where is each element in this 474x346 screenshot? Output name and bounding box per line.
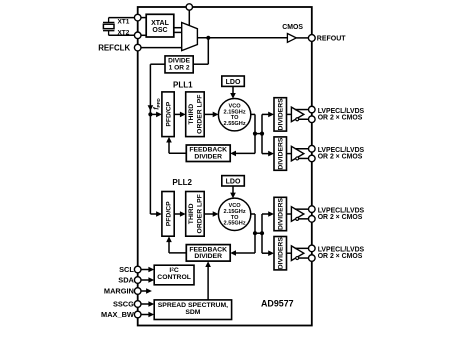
wire XTAL OSC out b bbox=[174, 31, 182, 33]
svg-text:AD9577: AD9577 bbox=[261, 299, 294, 309]
wire LDO to VCO PLL2 bbox=[230, 186, 236, 198]
mux M1 bbox=[182, 23, 198, 51]
pin REFCLK bbox=[134, 44, 141, 51]
svg-text:OSC: OSC bbox=[152, 27, 167, 34]
DIVIDERS box 1 bbox=[274, 98, 287, 131]
SPREAD SPECTRUM SDM box bbox=[154, 300, 231, 320]
svg-text:1 OR 2: 1 OR 2 bbox=[169, 65, 190, 72]
svg-text:PLL1: PLL1 bbox=[173, 80, 193, 89]
svg-text:SPREAD SPECTRUM,: SPREAD SPECTRUM, bbox=[158, 302, 228, 309]
wire XT1 to crystal bbox=[109, 17, 138, 19]
wire mux select from top pin bbox=[188, 7, 190, 26]
wire dividers rail PLL1 bbox=[261, 114, 263, 153]
node rail bridge left PLL1 bbox=[253, 132, 257, 136]
label XT2 bbox=[117, 30, 129, 37]
svg-text:DIVIDERS: DIVIDERS bbox=[278, 237, 285, 270]
wire XTAL OSC out a bbox=[174, 27, 182, 29]
node A junction to PLL1 bbox=[148, 112, 152, 116]
label AD9577 bbox=[261, 299, 294, 309]
CMOS buffer U2 bbox=[287, 34, 296, 43]
svg-text:DIVIDERS: DIVIDERS bbox=[278, 197, 285, 230]
label PLL1 bbox=[173, 80, 193, 89]
wire into DIVIDERS1 bbox=[262, 112, 274, 118]
wire SSCG bbox=[138, 303, 149, 305]
wire XT2 to crystal bbox=[109, 34, 138, 36]
svg-text:ORDER LPF: ORDER LPF bbox=[197, 194, 204, 233]
label SCL bbox=[119, 265, 134, 274]
arrow fPFD down bbox=[148, 105, 154, 111]
pin XT2 bbox=[134, 32, 141, 39]
label MARGIN bbox=[104, 287, 134, 296]
wire fPFD rail down bbox=[149, 64, 151, 214]
label REFOUT bbox=[317, 35, 347, 42]
svg-text:SSCG: SSCG bbox=[113, 300, 134, 309]
wire LPF to VCO PLL1 bbox=[204, 112, 218, 118]
wire VCO out PLL1 bbox=[251, 113, 255, 115]
wire into DIVIDERS3 bbox=[262, 211, 274, 217]
svg-text:DIVIDER: DIVIDER bbox=[194, 253, 222, 260]
DIVIDERS box 3 bbox=[274, 197, 287, 230]
wire SCL bbox=[138, 269, 149, 271]
wire into DIVIDERS4 bbox=[262, 250, 274, 256]
LDO box PLL1 bbox=[222, 76, 245, 86]
wire XT2 to XTAL OSC bbox=[138, 34, 147, 36]
svg-text:OR 2 × CMOS: OR 2 × CMOS bbox=[318, 154, 363, 161]
wire into FEEDBACK DIVIDER PLL1 bbox=[230, 151, 255, 157]
wire DIVIDE out left bbox=[150, 63, 165, 65]
svg-text:THIRD: THIRD bbox=[188, 104, 195, 125]
wire into DIVIDE right bbox=[193, 63, 208, 65]
wire FEEDBACK to PFD PLL1 bbox=[166, 137, 186, 154]
node mux out junction bbox=[206, 36, 210, 40]
wire driver 4 out true bbox=[295, 247, 309, 249]
wire DIVIDERS4 to driver bbox=[287, 252, 292, 254]
XTAL OSC box bbox=[146, 14, 174, 37]
svg-text:PLL2: PLL2 bbox=[172, 178, 192, 187]
svg-text:XT1: XT1 bbox=[117, 19, 129, 26]
FEEDBACK DIVIDER box PLL2 bbox=[186, 245, 230, 262]
svg-text:SCL: SCL bbox=[119, 265, 134, 274]
label REFCLK bbox=[98, 44, 130, 53]
svg-text:CONTROL: CONTROL bbox=[157, 274, 191, 281]
label output 3 bbox=[318, 208, 365, 221]
label output 1 bbox=[318, 108, 365, 121]
wire DIVIDERS3 to driver bbox=[287, 213, 292, 215]
wire dividers rail PLL2 bbox=[261, 214, 263, 253]
arrow SCL into I2C bbox=[148, 267, 154, 273]
wire into FEEDBACK DIVIDER PLL2 bbox=[230, 250, 255, 256]
svg-text:DIVIDER: DIVIDER bbox=[194, 154, 222, 161]
svg-text:ORDER LPF: ORDER LPF bbox=[197, 95, 204, 134]
wire SDA bbox=[138, 279, 149, 281]
chip outline AD9577 bbox=[138, 7, 312, 326]
wire PFD1 to LPF PLL2 bbox=[174, 211, 186, 217]
wire DIVIDERS1 to driver bbox=[287, 113, 292, 115]
svg-text:LDO: LDO bbox=[226, 79, 241, 86]
wire SDM to FEEDBACK DIVIDER PLL2 bbox=[205, 261, 211, 300]
FEEDBACK DIVIDER box PLL1 bbox=[186, 145, 230, 162]
pin OUT4P bbox=[309, 245, 316, 252]
svg-text:DIVIDERS: DIVIDERS bbox=[278, 98, 285, 131]
wire DIVIDERS2 to driver bbox=[287, 153, 292, 155]
wire driver 4 out complement bbox=[296, 257, 309, 259]
wire MAX_BW bbox=[138, 314, 149, 316]
output driver 2 bbox=[291, 146, 303, 161]
svg-text:DIVIDERS: DIVIDERS bbox=[278, 137, 285, 170]
svg-text:THIRD: THIRD bbox=[188, 203, 195, 224]
THIRD ORDER LPF box PLL2 bbox=[186, 192, 205, 237]
svg-text:XT2: XT2 bbox=[117, 30, 129, 37]
arrow MAX_BW into SDM bbox=[148, 312, 154, 318]
pin top (mux select) bbox=[186, 4, 192, 10]
bubble driver 3 bbox=[296, 217, 299, 220]
pin XT1 bbox=[134, 14, 141, 21]
wire buffer to REFOUT bbox=[296, 37, 308, 39]
wire driver 2 out complement bbox=[296, 157, 309, 159]
wire VCO rail down PLL1 bbox=[254, 114, 256, 153]
wire XT1 to XTAL OSC bbox=[138, 17, 147, 19]
svg-text:2.55GHz: 2.55GHz bbox=[224, 221, 246, 227]
output driver 1 bbox=[291, 107, 303, 122]
pin OUT1N bbox=[309, 116, 316, 123]
label PLL2 bbox=[172, 178, 192, 187]
wire VCO rail down PLL2 bbox=[254, 214, 256, 253]
wire mux out to CMOS buffer bbox=[197, 37, 287, 39]
pin SCL bbox=[134, 266, 141, 273]
svg-text:I2C: I2C bbox=[169, 266, 178, 274]
wire rail bridge PLL2 bbox=[255, 232, 262, 234]
pin OUT1P bbox=[309, 106, 316, 113]
pin OUT2N bbox=[309, 155, 316, 162]
pin OUT3N bbox=[309, 216, 316, 223]
pin SDA bbox=[134, 277, 141, 284]
label XT1 bbox=[117, 19, 129, 26]
arrow SSCG into SDM bbox=[148, 301, 154, 307]
svg-text:REFCLK: REFCLK bbox=[98, 44, 130, 53]
output driver 3 bbox=[291, 207, 303, 222]
svg-text:REFOUT: REFOUT bbox=[317, 35, 347, 42]
PFD/CP box PLL2 bbox=[162, 192, 174, 237]
svg-text:PFD/CP: PFD/CP bbox=[166, 201, 173, 226]
wire REFCLK to mux bbox=[138, 47, 182, 49]
wire LPF to VCO PLL2 bbox=[204, 211, 218, 217]
DIVIDERS box 2 bbox=[274, 137, 287, 170]
svg-text:SDM: SDM bbox=[185, 309, 200, 316]
node rail bridge left PLL2 bbox=[253, 231, 257, 235]
svg-text:CMOS: CMOS bbox=[282, 24, 303, 31]
label CMOS bbox=[282, 24, 303, 31]
wire mux out down bbox=[207, 38, 209, 64]
wire driver 1 out true bbox=[295, 109, 309, 111]
node rail bridge right PLL1 bbox=[260, 132, 264, 136]
PFD/CP box PLL1 bbox=[162, 92, 174, 137]
I2C CONTROL box bbox=[154, 265, 194, 285]
label fPFD bbox=[154, 98, 161, 110]
pin MARGIN bbox=[134, 288, 141, 295]
wire LDO to VCO PLL1 bbox=[230, 86, 236, 98]
svg-text:MAX_BW: MAX_BW bbox=[101, 310, 134, 319]
svg-text:LDO: LDO bbox=[226, 178, 241, 185]
wire driver 3 out complement bbox=[296, 218, 309, 220]
svg-text:OR 2 × CMOS: OR 2 × CMOS bbox=[318, 214, 363, 221]
THIRD ORDER LPF box PLL1 bbox=[186, 92, 205, 137]
bubble driver 4 bbox=[296, 257, 299, 260]
svg-text:PFD/CP: PFD/CP bbox=[166, 101, 173, 126]
pin OUT4N bbox=[309, 255, 316, 262]
pin OUT2P bbox=[309, 145, 316, 152]
DIVIDERS box 4 bbox=[274, 237, 287, 270]
bubble driver 2 bbox=[296, 157, 299, 160]
pin MAX_BW bbox=[134, 311, 141, 318]
wire MARGIN bbox=[138, 290, 149, 292]
wire PFD1 to LPF PLL1 bbox=[174, 112, 186, 118]
wire driver 2 out true bbox=[295, 148, 309, 150]
wire into PFD2 bbox=[150, 211, 162, 217]
node rail bridge right PLL2 bbox=[260, 231, 264, 235]
svg-text:OR 2 × CMOS: OR 2 × CMOS bbox=[318, 253, 363, 260]
svg-text:MARGIN: MARGIN bbox=[104, 287, 134, 296]
wire FEEDBACK to PFD PLL2 bbox=[166, 236, 186, 253]
label SSCG bbox=[113, 300, 134, 309]
wire VCO out PLL2 bbox=[251, 213, 255, 215]
wire driver 3 out true bbox=[295, 208, 309, 210]
label output 2 bbox=[318, 147, 365, 160]
wire into PFD1 bbox=[150, 112, 162, 118]
arrow SDA into I2C bbox=[148, 277, 154, 283]
pin OUT3P bbox=[309, 206, 316, 213]
svg-text:fPFD: fPFD bbox=[154, 98, 161, 110]
VCO PLL2 bbox=[218, 198, 250, 230]
wire rail bridge PLL1 bbox=[255, 133, 262, 135]
VCO PLL1 bbox=[218, 99, 250, 131]
pin REFOUT bbox=[308, 35, 315, 42]
arrow MARGIN bbox=[146, 288, 152, 294]
label SDA bbox=[118, 276, 134, 285]
svg-text:SDA: SDA bbox=[118, 276, 134, 285]
svg-text:OR 2 × CMOS: OR 2 × CMOS bbox=[318, 114, 363, 121]
wire driver 1 out complement bbox=[296, 118, 309, 120]
label MAX_BW bbox=[101, 310, 134, 319]
pin SSCG bbox=[134, 301, 141, 308]
bubble driver 1 bbox=[296, 118, 299, 121]
svg-text:2.55GHz: 2.55GHz bbox=[224, 121, 246, 127]
wire into DIVIDERS2 bbox=[262, 151, 274, 157]
DIVIDE 1 OR 2 box bbox=[165, 56, 193, 73]
output driver 4 bbox=[291, 246, 303, 261]
crystal Y1 bbox=[103, 18, 114, 36]
LDO box PLL2 bbox=[222, 176, 245, 186]
label output 4 bbox=[318, 247, 365, 260]
